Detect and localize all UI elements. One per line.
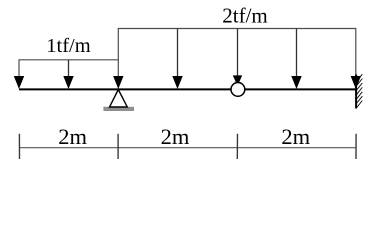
wire arrow stem q3 [237, 29, 239, 77]
dimension tick 1 [18, 134, 20, 159]
pin support ground bar [103, 107, 134, 111]
arrowhead 5 (onto hinge circle) [233, 75, 242, 86]
wire arrow stem q1 [68, 60, 70, 77]
dimension tick 2 [117, 134, 119, 159]
beam [19, 88, 356, 90]
arrowhead 1 [14, 76, 24, 89]
arrowhead 3 [113, 76, 123, 89]
svg-text:2m: 2m [161, 124, 190, 149]
svg-text:1tf/m: 1tf/m [46, 35, 90, 57]
arrowhead 7 [351, 76, 361, 89]
arrowhead 6 [291, 76, 301, 89]
wall support line [355, 75, 357, 109]
wire arrow stem q4 [296, 29, 298, 78]
svg-text:2tf/m: 2tf/m [222, 3, 268, 27]
wall hatching [356, 74, 362, 108]
hinge circle [231, 83, 245, 97]
arrowhead 2 [63, 76, 73, 89]
dimension line [19, 147, 356, 149]
wire arrow stem q2 [177, 29, 179, 78]
dimension tick 4 [355, 134, 357, 159]
svg-text:2m: 2m [58, 124, 87, 149]
arrowhead 4 [172, 76, 182, 89]
wire load line 2tf/m [118, 29, 355, 78]
wire load line 1tf/m [19, 60, 118, 77]
pin support triangle [110, 90, 128, 108]
dimension tick 3 [236, 134, 238, 159]
svg-text:2m: 2m [281, 124, 310, 149]
